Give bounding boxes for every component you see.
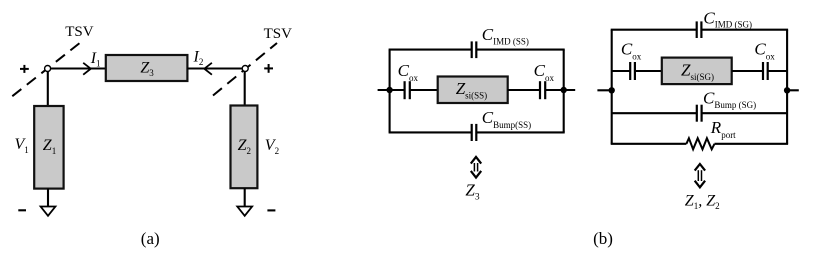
ground right (237, 207, 252, 216)
impedance Z1 (34, 106, 63, 189)
svg-text:Z3: Z3 (465, 180, 479, 202)
wire: SS bottom branch left segment (389, 131, 472, 133)
node right TSV port (242, 66, 248, 72)
wire Z_si(SG) to right cap (732, 70, 763, 72)
wire: SG right vertical (786, 30, 788, 144)
plus terminal left (20, 65, 29, 73)
capacitor C_ox SG-left (629, 62, 631, 80)
capacitor C_Bump(SG) (696, 105, 698, 122)
svg-text:Z1, Z2: Z1, Z2 (685, 192, 720, 211)
svg-text:Cox: Cox (621, 39, 642, 61)
wire: SS left vertical (389, 50, 391, 133)
wire node-right down to Z2 (244, 72, 246, 106)
capacitor C_IMD(SG) (696, 21, 698, 38)
wire: SS top branch left segment (389, 49, 472, 51)
svg-text:TSV: TSV (264, 26, 293, 42)
svg-text:CBump (SG): CBump (SG) (703, 89, 756, 111)
wire: SS right stub (545, 89, 575, 91)
svg-text:I2: I2 (193, 48, 204, 67)
impedance Z2 (231, 106, 258, 189)
wire: SG bottom branch left segment (611, 143, 687, 145)
wire Z3 to node-right (187, 67, 242, 69)
wire node-left down to Z1 (47, 72, 49, 106)
svg-text:Cox: Cox (534, 61, 555, 83)
wire: SS top branch right segment (476, 49, 564, 51)
impedance Z_si(SS) (438, 77, 508, 104)
ground left (41, 207, 56, 216)
capacitor C_IMD(SS) (471, 41, 473, 58)
minus terminal left (18, 209, 26, 211)
node: SS left terminal (386, 87, 392, 93)
svg-text:(a): (a) (141, 229, 160, 248)
wire: SG top branch left segment (611, 29, 697, 31)
capacitor C_Bump(SS) (471, 124, 473, 141)
wire: SG C_Bump branch right segment (702, 112, 788, 114)
svg-text:I1: I1 (90, 50, 101, 69)
plus terminal right (264, 64, 273, 73)
wire: SG left vertical (611, 30, 613, 144)
wire Zsi box to right cap (508, 89, 540, 91)
TSV dashed line right (213, 43, 277, 96)
node: SS right terminal (561, 87, 567, 93)
wire right cap to SG right vertical (768, 70, 787, 72)
current arrow I1 (83, 63, 91, 75)
wire Z1 to ground left (47, 189, 49, 207)
wire: SS bottom branch right segment (476, 131, 564, 133)
equivalence double arrow SS (471, 157, 481, 178)
capacitor C_ox SS-right (539, 81, 541, 99)
impedance Z_si(SG) (662, 58, 732, 85)
wire: SG top branch right segment (701, 29, 788, 31)
wire: SS right vertical (563, 50, 565, 133)
wire node-left to Z3 (51, 67, 106, 69)
wire: SG bottom branch right segment (715, 143, 789, 145)
svg-text:Cox: Cox (398, 61, 419, 83)
node: SG right terminal (784, 87, 790, 93)
wire: SG mid branch left segment (612, 70, 631, 72)
resistor R_port (686, 138, 714, 149)
wire: SG C_Bump branch left segment (612, 112, 697, 114)
wire: SG left terminal stub (597, 89, 611, 91)
impedance Z3 (106, 55, 188, 81)
node: SG left terminal (609, 87, 615, 93)
svg-text:CIMD (SS): CIMD (SS) (482, 25, 529, 46)
svg-text:V2: V2 (265, 137, 279, 156)
equivalence double arrow SG (695, 164, 705, 187)
wire cap to Zsi box (410, 89, 438, 91)
wire: SG right terminal stub (787, 89, 799, 91)
capacitor C_ox SG-right (762, 62, 764, 80)
current arrow I2 (204, 63, 212, 75)
capacitor C_ox SS-left (404, 81, 406, 99)
svg-text:Cox: Cox (754, 39, 775, 61)
svg-text:Rport: Rport (710, 118, 736, 140)
svg-text:CIMD (SG): CIMD (SG) (703, 8, 752, 29)
TSV dashed line left (12, 41, 82, 96)
minus terminal right (267, 209, 275, 211)
wire: SS left stub (378, 89, 405, 91)
svg-text:TSV: TSV (65, 24, 94, 40)
wire cap to Z_si(SG) (635, 70, 662, 72)
svg-text:CBump(SS): CBump(SS) (482, 108, 531, 130)
svg-text:V1: V1 (15, 136, 29, 155)
svg-text:(b): (b) (593, 229, 613, 248)
wire Z2 to ground right (244, 188, 246, 206)
node left TSV port (45, 66, 51, 72)
